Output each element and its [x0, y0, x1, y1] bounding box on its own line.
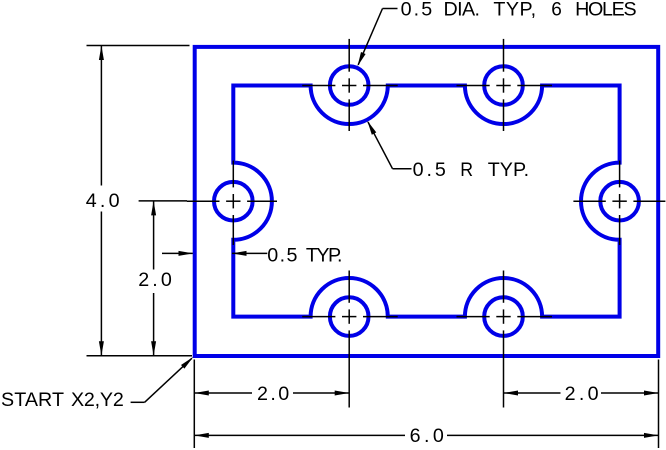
dim 2.0 bottom-left dimension line (broken at text): [194, 392, 252, 394]
svg-text:2.0: 2.0: [138, 269, 172, 291]
svg-text:2.0: 2.0: [565, 383, 599, 405]
svg-text:TYP,: TYP,: [493, 0, 536, 20]
bottom-left extension line: [193, 360, 195, 449]
centerline hole 1: [302, 39, 398, 131]
text 0.5 R TYP.: [413, 159, 530, 181]
dim text 6.0: [410, 425, 444, 447]
svg-text:TYP.: TYP.: [306, 245, 343, 267]
hole 6 (right) circle 0.5 dia: [600, 182, 639, 221]
dim 2.0 bottom-right dimension line (broken at text): [504, 392, 561, 394]
inner pocket outline with 6 scallops: [233, 86, 619, 317]
dim 6.0 dimension line (broken at text): [194, 434, 405, 436]
hole 3 (bottom-left) circle 0.5 dia: [330, 297, 369, 336]
svg-text:0.5: 0.5: [267, 245, 297, 267]
hole 5 (left) circle 0.5 dia: [214, 182, 253, 221]
centerline hole 2: [457, 39, 553, 131]
svg-text:0.5: 0.5: [401, 0, 433, 20]
centerline hole 5: [187, 161, 277, 246]
plate outer outline: [195, 47, 659, 356]
dim 6.0 arrows: [194, 433, 209, 438]
bottom-right extension line: [658, 360, 660, 449]
dim 2.0 bottom-right arrows: [504, 391, 519, 396]
hole 4 (bottom-right) circle 0.5 dia: [484, 297, 523, 336]
svg-text:TYP.: TYP.: [488, 159, 529, 181]
svg-text:DIA.: DIA.: [444, 0, 481, 20]
dim 2.0 left top extension line: [139, 200, 187, 202]
svg-text:6: 6: [551, 0, 562, 20]
centerline hole 4 (extended down as extension line for 2.0 dim): [457, 271, 553, 408]
dim 4.0 / 2.0 bottom extension line: [87, 355, 193, 357]
dim 2.0 left dimension line (broken at text): [153, 201, 155, 270]
0.5 typ outside arrow (points right at outer edge): [162, 252, 193, 254]
svg-text:0.5: 0.5: [413, 159, 446, 181]
leader to scallop radius of hole 1: [393, 168, 412, 170]
text 0.5 TYP.: [267, 245, 342, 267]
centerline hole 3 (extended down as extension line for 2.0 dim): [302, 271, 398, 408]
leader to bottom-left start corner: [131, 401, 145, 403]
dim 2.0 bottom-left arrows: [194, 391, 209, 396]
svg-text:2.0: 2.0: [257, 383, 289, 405]
svg-text:6.0: 6.0: [410, 425, 444, 447]
hole 1 (top-left) circle 0.5 dia: [330, 66, 369, 105]
dim 4.0 dimension line (broken at text): [100, 46, 102, 186]
dim text 2.0 (bottom-right): [565, 383, 599, 405]
svg-text:HOLES: HOLES: [575, 0, 637, 20]
dim text 2.0 (bottom-left): [257, 383, 289, 405]
text START X2,Y2: [1, 389, 124, 411]
dim 2.0 left arrows: [151, 201, 156, 216]
dim 4.0 arrows: [99, 46, 104, 61]
svg-text:R: R: [460, 159, 473, 181]
centerline hole 6: [573, 161, 665, 246]
leader to hole 1 circle: [383, 8, 398, 10]
hole 2 (top-right) circle 0.5 dia: [484, 66, 523, 105]
dim text 4.0: [86, 190, 120, 212]
text 0.5 DIA. TYP, 6 HOLES: [401, 0, 637, 20]
svg-text:X2,Y2: X2,Y2: [71, 389, 124, 411]
dim text 2.0 (left): [138, 269, 172, 291]
0.5 typ inside arrow (points left at inner edge): [232, 252, 267, 254]
svg-text:4.0: 4.0: [86, 190, 120, 212]
dim 4.0 top extension line: [87, 45, 190, 47]
svg-text:START: START: [1, 389, 64, 411]
